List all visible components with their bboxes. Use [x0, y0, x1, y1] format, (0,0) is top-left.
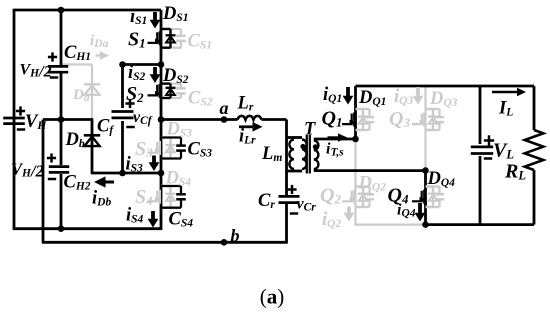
wire: S3-S4 midpoint row to Db [91, 172, 161, 175]
gray switch Q3 (MOSFET) with gray body diode DQ3 [426, 108, 440, 110]
current arrow iS2 [153, 67, 157, 76]
magnetizing inductor Lm winding [289, 140, 294, 169]
transformer primary polarity dot [300, 144, 305, 149]
gray branch wire to diode Da [61, 63, 92, 65]
current arrow iQ4 [418, 203, 422, 214]
transformer secondary polarity dot [313, 144, 318, 149]
switch Q1 (MOSFET) with gray body diode DQ1 and gray capacitance [356, 108, 370, 110]
capacitor Cf [112, 110, 134, 113]
current arrow iDb [104, 181, 114, 184]
svg-text:T: T [304, 120, 316, 140]
plus sign of CH2 [47, 157, 56, 160]
minus sign of CH2 [48, 178, 56, 181]
svg-text:b: b [231, 226, 240, 246]
junction bridge right midpoint [422, 167, 429, 174]
current arrow iS1 [153, 12, 157, 21]
junction bridge bottom right [422, 221, 429, 228]
junction of midpoint row and capacitor rail [58, 116, 65, 123]
plus sign of Cf [125, 102, 134, 105]
svg-text:a: a [220, 98, 229, 118]
wire: bridge right leg lower (Q4, black) [424, 171, 427, 225]
wire: b return rail [42, 241, 288, 244]
junction node a row on leg [158, 116, 165, 123]
wire: transformer primary bottom connection [287, 170, 303, 173]
wire: bridge top rail [356, 85, 535, 88]
current arrow iS4 [151, 211, 155, 220]
source VH [3, 117, 25, 120]
node b [221, 239, 228, 246]
wire: half-bridge capacitor rail (lower segment) [60, 174, 63, 229]
gray current arrow iDa [96, 54, 102, 57]
plus sign of VH [16, 110, 25, 113]
current arrow iS3 [152, 156, 156, 164]
gray wire: bridge left leg lower (Q2) [354, 139, 356, 225]
wire: load rail lower [533, 170, 536, 225]
svg-text:(a): (a) [260, 285, 285, 309]
resistor RL [525, 130, 544, 170]
wire: tank vertical below Cr to b rail [285, 203, 288, 243]
wire: output capacitor branch [479, 86, 482, 144]
current arrow IL [492, 91, 519, 94]
junction S1-S2 midpoint [158, 61, 165, 68]
wire: load rail upper [533, 86, 536, 130]
gray wire: bridge right leg upper (Q3) [424, 85, 426, 171]
minus sign of Cr [290, 212, 298, 215]
gray switch S4 (MOSFET) with gray body diode DS4 and black snubber CS4 [161, 185, 171, 187]
switch S1 (MOSFET) with body diode DS1 and gray snubber CS1 [161, 28, 181, 30]
wire: switch leg S1-S4 [160, 10, 163, 229]
gray switch Q2 (MOSFET) with gray body diode DQ2 [356, 185, 370, 187]
wire: bridge bottom rail black segment [424, 223, 534, 226]
minus sign of Cf [126, 126, 134, 129]
minus sign of CH1 [50, 76, 58, 79]
minus sign of VH [17, 128, 25, 131]
capacitor CH2 [49, 165, 69, 168]
transformer primary winding [302, 140, 307, 169]
wire: half-bridge capacitor rail (mid segment) [60, 73, 63, 165]
junction at top rail and capacitor rail [58, 7, 65, 14]
wire: capacitor midpoint row [43, 118, 93, 121]
minus sign of VL [484, 157, 492, 160]
wire: Cf branch [121, 65, 124, 109]
plus sign of Cr [287, 188, 296, 191]
gray wire: bridge bottom rail left segment [354, 224, 425, 226]
junction of Cf branch bottom [119, 170, 126, 177]
junction of capacitor rail and bottom rail [58, 225, 65, 232]
junction bridge left midpoint [352, 136, 359, 143]
wire: primary top rail [14, 9, 161, 12]
diode Db [84, 134, 100, 137]
wire: primary bottom rail [13, 227, 163, 230]
transformer secondary winding [314, 141, 319, 170]
wire: secondary top to bridge left midpoint [314, 138, 357, 141]
plus sign of VL [484, 139, 494, 142]
current arrow iTs [328, 136, 340, 139]
gray current arrow iQ2 [347, 207, 351, 215]
wire: node a row [161, 118, 238, 121]
inductor Lr [238, 116, 262, 120]
junction S3-S4 midpoint [158, 170, 165, 177]
wire: midpoint-to-b drop [42, 120, 45, 243]
wire: secondary bottom to bridge right midpoint [314, 169, 427, 172]
wire: half-bridge capacitor rail (upper segment) [60, 10, 63, 66]
switch Q4 (MOSFET) with gray body diode DQ4 and gray capacitance [426, 185, 440, 187]
plus sign of CH1 [48, 56, 57, 59]
current arrow iLr [239, 125, 254, 128]
wire: a row from Lr to tank corner and down [262, 118, 287, 121]
gray current arrow iQ3 [416, 87, 420, 97]
capacitor Cr [279, 195, 300, 198]
wire: bridge left leg upper (Q1, black) [354, 86, 357, 139]
gray diode Da [84, 83, 100, 85]
wire: diode Db branch [91, 120, 94, 174]
switch S2 (MOSFET) with body diode DS2 and gray snubber CS2 [161, 82, 181, 84]
wire: Cf top connection [123, 63, 162, 66]
current arrow iQ1 [346, 87, 350, 97]
gray switch S3 (MOSFET) with gray body diode DS3 and black snubber CS3 [161, 136, 171, 138]
junction of Cf branch top [119, 61, 126, 68]
transformer core [306, 135, 308, 174]
capacitor VL [471, 145, 493, 148]
wire: left outer rail [13, 9, 16, 229]
capacitor CH1 [48, 65, 68, 68]
wire: transformer primary top connection [287, 136, 303, 139]
node a [221, 116, 228, 123]
